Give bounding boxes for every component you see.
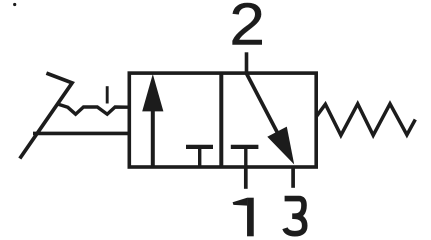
svg-text:2: 2 xyxy=(229,0,265,58)
